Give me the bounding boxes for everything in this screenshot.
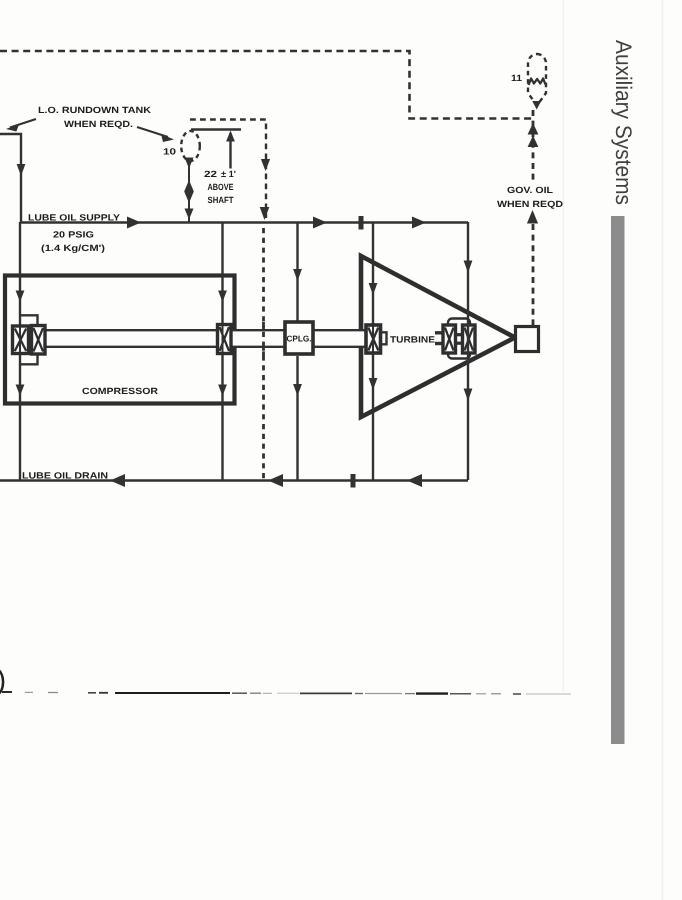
valve: rundown feed check valve with flow arrows bbox=[184, 158, 194, 220]
arrow: rundown dashed flow down onto supply bbox=[260, 207, 270, 220]
junction tick on supply at turbine riser bbox=[359, 216, 364, 230]
sidebar bar bbox=[611, 216, 625, 744]
arrow: coupling feed down (upper) bbox=[293, 269, 302, 281]
governor box at turbine apex bbox=[516, 327, 539, 352]
wire: lube oil supply header bbox=[21, 221, 468, 223]
arrow: right feed down (in box) bbox=[218, 291, 227, 303]
arrow: turbine left feed down (upper) bbox=[369, 283, 378, 295]
arrow: rundown inlet flow down bbox=[17, 164, 26, 176]
wire: turbine right bearing feed riser (through bearing) bbox=[467, 222, 469, 480]
wire: dashed drain bypass crossing shaft (redraw over shaft) bbox=[262, 322, 265, 356]
label LUBE OIL SUPPLY 20 PSIG (1.4 Kg/CM') bbox=[28, 213, 120, 254]
svg-text:WHEN REQD.: WHEN REQD. bbox=[64, 119, 133, 129]
bottom rule (scanned uneven line) bbox=[2, 692, 571, 694]
shaft stub left of turbine right bearings bbox=[435, 333, 443, 344]
svg-text:± 1': ± 1' bbox=[221, 169, 236, 179]
junction tick on drain bbox=[351, 474, 356, 488]
svg-text:Auxiliary Systems: Auxiliary Systems bbox=[611, 40, 636, 205]
label 22 ± 1' ABOVE SHAFT bbox=[204, 169, 236, 205]
coupling CPLG bbox=[285, 322, 313, 354]
valve 11 (dashed relief valve) bbox=[528, 54, 546, 110]
svg-text:11: 11 bbox=[511, 73, 522, 83]
svg-text:LUBE OIL DRAIN: LUBE OIL DRAIN bbox=[22, 471, 108, 481]
arrow: turbine left feed down (lower) bbox=[369, 378, 378, 390]
arrow: turbine right feed down (lower) bbox=[464, 389, 473, 402]
wire: lube oil drain header bbox=[0, 479, 468, 481]
label L.O. RUNDOWN TANK WHEN REQD. bbox=[38, 105, 152, 129]
arrow: drain flow left 2 bbox=[268, 474, 283, 487]
arrow: supply flow right 3 bbox=[412, 217, 426, 229]
arrow: coupling feed down (lower) bbox=[293, 384, 302, 396]
wire: left bearing feed riser bbox=[20, 222, 38, 480]
arrow: drain flow left 1 bbox=[110, 474, 125, 487]
svg-text:COMPRESSOR: COMPRESSOR bbox=[82, 386, 159, 396]
bearing: turbine left bbox=[366, 325, 381, 353]
svg-text:10: 10 bbox=[163, 147, 176, 157]
shaft stub right of turbine left bearing bbox=[380, 332, 387, 344]
svg-text:20 PSIG: 20 PSIG bbox=[53, 230, 94, 240]
arrow: right feed down (to drain) bbox=[218, 385, 227, 397]
arrow: gov oil flow up (single) bbox=[527, 210, 538, 224]
arrow: drain flow left 3 bbox=[407, 474, 422, 487]
wire: compressor right bearing feed riser bbox=[221, 222, 223, 480]
valve 10 (dashed) bbox=[181, 131, 200, 161]
leader arrow to valve 10 bbox=[137, 127, 174, 142]
arrow: left feed down (in box) bbox=[16, 291, 25, 303]
svg-text:ABOVE: ABOVE bbox=[208, 182, 234, 192]
svg-text:SHAFT: SHAFT bbox=[208, 195, 234, 205]
wire: dashed drain bypass below supply bbox=[262, 228, 265, 479]
svg-text:TURBINE: TURBINE bbox=[390, 335, 435, 345]
svg-text:WHEN REQD: WHEN REQD bbox=[497, 199, 564, 209]
wire: L.O. rundown tank inlet from left margin bbox=[0, 134, 21, 222]
arrow: turbine right feed down (upper) bbox=[464, 261, 473, 274]
wire: dashed rundown tank line (box) bbox=[190, 120, 266, 219]
leader arrow to inlet wire bbox=[6, 119, 36, 132]
bearing housing: turbine right pair bbox=[448, 319, 470, 359]
arrow: supply flow right 1 bbox=[127, 217, 141, 229]
bearing: compressor thrust pair (left) bbox=[13, 326, 46, 355]
arrow: left feed down (to drain) bbox=[16, 385, 25, 397]
arrow: supply flow right 2 bbox=[313, 217, 327, 229]
turbine body bbox=[361, 256, 515, 417]
label GOV. OIL WHEN REQD bbox=[497, 185, 564, 209]
shaft: compressor to coupling bbox=[229, 329, 284, 348]
bearing: compressor right bbox=[218, 325, 232, 354]
svg-text:(1.4 Kg/CM'): (1.4 Kg/CM') bbox=[41, 243, 105, 253]
bearing: turbine right pair bbox=[443, 325, 475, 353]
svg-text:CPLG.: CPLG. bbox=[287, 334, 312, 344]
arrow: gov oil flow up (double) bbox=[528, 123, 539, 147]
wire: turbine left bearing feed riser bbox=[372, 222, 374, 480]
wire: feed line through left bearing pair bbox=[19, 327, 21, 352]
dimension line: 22 above shaft bbox=[191, 130, 241, 169]
wire: dashed header line from left margin to relief valve 11 bbox=[0, 51, 533, 119]
svg-text:GOV. OIL: GOV. OIL bbox=[507, 185, 554, 195]
svg-text:22: 22 bbox=[204, 169, 217, 179]
arrow: rundown dashed flow down (upper) bbox=[261, 159, 270, 171]
svg-text:LUBE OIL SUPPLY: LUBE OIL SUPPLY bbox=[28, 213, 120, 223]
wire: gov oil dashed riser bbox=[532, 110, 535, 325]
shaft: compressor span bbox=[45, 329, 218, 348]
wire: feed line through compressor right bearing bbox=[222, 326, 224, 352]
shaft: coupling to turbine bbox=[314, 329, 366, 348]
wire: coupling feed riser bbox=[296, 222, 298, 480]
wire: feed line through turbine left bearing bbox=[372, 326, 374, 352]
compressor body bbox=[5, 276, 235, 404]
svg-text:L.O. RUNDOWN TANK: L.O. RUNDOWN TANK bbox=[38, 105, 152, 115]
